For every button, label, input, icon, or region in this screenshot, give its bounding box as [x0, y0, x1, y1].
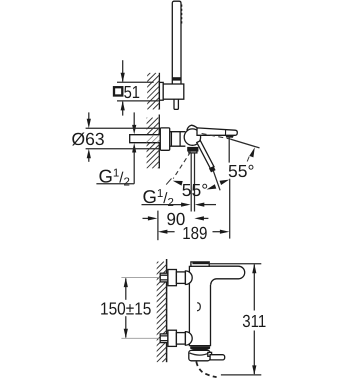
svg-text:55°: 55°	[228, 161, 254, 181]
upper inlet nut	[160, 273, 168, 282]
faucet body column	[189, 266, 210, 345]
upper inlet escutcheon	[168, 270, 177, 286]
wall edge middle view	[158, 115, 160, 169]
lower inlet centerline	[121, 337, 166, 339]
dim 51 extension line bottom	[117, 100, 159, 102]
valve cartridge circle	[184, 129, 200, 145]
lever dome cap	[187, 125, 198, 130]
svg-text:51: 51	[124, 82, 140, 102]
arc arrow upper	[249, 147, 255, 157]
spout profile	[209, 266, 245, 285]
svg-text:Ø63: Ø63	[72, 129, 105, 149]
G1/2 upper underline	[96, 183, 134, 185]
lower inlet nut	[160, 334, 168, 343]
svg-text:55°: 55°	[182, 180, 208, 200]
hand shower handle	[172, 1, 181, 84]
wall extension bar	[157, 211, 159, 241]
upper check valve cap	[185, 271, 192, 285]
shower holder wall plate	[159, 82, 163, 100]
pipe dim lower arrow	[133, 151, 135, 184]
dashed ray upper	[202, 134, 231, 140]
lower check valve cap	[185, 332, 192, 346]
square symbol	[114, 87, 122, 95]
dim 150 line upper	[125, 278, 127, 299]
outlet extension line left	[190, 154, 192, 212]
svg-text:189: 189	[182, 223, 207, 243]
lever axis extension	[213, 171, 220, 191]
arc arrow lower-left	[173, 181, 183, 186]
dim 311 reference bottom	[221, 374, 261, 376]
dim 51 lower arrow	[122, 102, 124, 116]
diverter foot bar	[210, 355, 225, 360]
body top cap	[191, 262, 209, 266]
hand shower spray face dashes	[181, 5, 183, 26]
shower holder arm	[163, 84, 184, 99]
angle leg vertical	[228, 136, 230, 163]
svg-text:150±15: 150±15	[100, 298, 151, 318]
arc arrow lower-right pair	[220, 180, 230, 185]
hand shower grip ring	[172, 77, 181, 80]
hose nipple	[174, 99, 178, 109]
diverter rim	[191, 347, 210, 351]
upper inlet centerline	[121, 277, 166, 279]
pipe dim upper arrow	[133, 112, 135, 126]
spout extension bar	[229, 179, 231, 239]
logo mark on body	[197, 303, 200, 311]
body union	[170, 132, 186, 147]
wall edge bottom view	[166, 259, 168, 362]
dim 63 extension top	[86, 127, 161, 129]
counter arrow at outlet	[203, 204, 216, 206]
dim 90 right arrow	[200, 217, 209, 219]
dim 150 line lower	[125, 316, 127, 337]
upper inlet cylinder	[176, 272, 185, 284]
diverter inner curve	[190, 353, 210, 355]
wall edge top view	[158, 73, 160, 110]
water stream dashes	[196, 362, 216, 378]
dim 63 lower arrow	[88, 158, 90, 162]
dashed ray lower-left	[173, 152, 190, 179]
dim 51 extension line top	[117, 81, 154, 83]
lever handle rotated down	[197, 141, 214, 169]
diverter knob side view	[188, 147, 198, 151]
diverter knob body	[189, 350, 210, 360]
outlet extension line right	[194, 154, 196, 212]
dim 90 left arrow	[143, 217, 150, 219]
wall escutcheon side view	[160, 128, 169, 150]
dim 51 upper arrow	[122, 60, 124, 81]
dim 189 left arrow	[166, 231, 175, 233]
lever handle horizontal	[197, 128, 237, 135]
dim 311 reference top	[210, 263, 262, 265]
G1/2 lower leader arrow	[142, 204, 183, 206]
dim 63 upper arrow	[88, 112, 90, 119]
dim 63 extension bottom	[86, 148, 164, 150]
dim 311 line	[253, 265, 255, 311]
supply pipe stub	[130, 135, 161, 143]
dim 189 right arrow	[213, 231, 222, 233]
lower inlet cylinder	[176, 333, 185, 345]
svg-text:311: 311	[242, 311, 266, 331]
lower inlet escutcheon	[168, 330, 177, 346]
thin ray upper	[230, 139, 259, 148]
diverter lip	[208, 352, 212, 356]
